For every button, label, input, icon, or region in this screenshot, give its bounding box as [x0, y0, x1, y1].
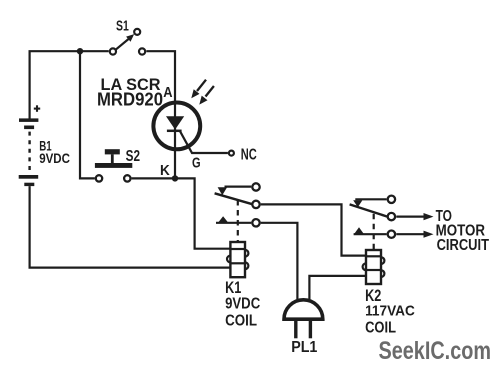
node K junction — [172, 175, 178, 181]
svg-text:9VDC: 9VDC — [225, 296, 260, 313]
S1 open-throw terminal — [134, 29, 140, 35]
wire S2 right terminal through node K down to relay coil K1 top feed — [132, 178, 231, 248]
wire K1 NO terminal down to plug PL1 left pin — [261, 223, 298, 301]
battery B1 — [19, 105, 70, 186]
svg-text:A: A — [163, 84, 172, 101]
K2 NC stationary finger — [355, 198, 386, 200]
S2 left terminal — [96, 175, 102, 181]
K2 coil body — [366, 250, 381, 284]
K2 coil loops — [381, 257, 384, 264]
battery top cell plates — [19, 118, 38, 122]
plug PL1 — [284, 300, 323, 356]
transistor U1 LASCR MRD920 — [153, 103, 200, 150]
K1 NO stationary finger — [216, 222, 251, 224]
switch S2 pushbutton — [95, 148, 140, 182]
wire K1 common terminal to K2 coil top feed — [261, 204, 366, 255]
K1 NC stationary finger — [225, 186, 252, 188]
K2 movable armature blade — [350, 204, 388, 216]
wire plug PL1 right pin up to K2 coil bottom feed — [309, 276, 366, 301]
svg-text:K1: K1 — [225, 278, 241, 297]
svg-text:NC: NC — [241, 147, 257, 164]
polarity mark + — [34, 108, 40, 110]
battery dashed middle link — [28, 132, 30, 171]
relay coil K2 — [363, 250, 385, 284]
S2 button cap — [105, 149, 120, 154]
svg-text:117VAC: 117VAC — [365, 303, 415, 320]
LASCR case circle — [153, 103, 200, 150]
svg-text:CIRCUIT: CIRCUIT — [437, 237, 490, 254]
relay K1 contact set — [215, 183, 260, 242]
light arrow 2 into LASCR — [199, 86, 214, 105]
light arrow 1 into LASCR — [191, 80, 206, 99]
K2 NO terminal — [388, 231, 395, 238]
svg-text:COIL: COIL — [365, 320, 396, 337]
K1 NC terminal — [252, 183, 259, 190]
K1 movable armature blade — [215, 193, 253, 204]
svg-text:G: G — [192, 155, 201, 172]
K1 common terminal — [252, 201, 259, 208]
PL1 plug body dome — [284, 300, 323, 319]
K1 coil body — [230, 242, 245, 277]
K2 dashed mechanical link to coil — [373, 214, 375, 250]
S2 right terminal — [124, 175, 130, 181]
wire arrow K2 common terminal to motor circuit — [396, 213, 433, 220]
LASCR cathode bar — [167, 130, 182, 133]
terminal NC open gate connection — [229, 151, 234, 156]
svg-text:MRD920: MRD920 — [97, 88, 163, 109]
svg-text:SeekIC.com: SeekIC.com — [379, 338, 492, 365]
K2 common terminal — [388, 213, 395, 220]
wire branch from top rail down to S2 left contact — [80, 51, 95, 178]
svg-text:COIL: COIL — [225, 312, 257, 329]
wire S1 right terminal to LASCR anode and on down to node K — [146, 51, 175, 178]
LASCR SCR triangle — [166, 116, 184, 129]
wire arrow K2 NO terminal to motor circuit — [396, 231, 433, 238]
node junction of top rail with S2 branch — [77, 48, 83, 54]
svg-text:K: K — [160, 162, 170, 179]
K1 coil loops — [245, 250, 248, 257]
S2 bridging contact bar — [95, 163, 132, 168]
switch S1 — [110, 19, 145, 55]
battery bottom cell plates — [19, 175, 39, 179]
wire battery negative bottom rail to K1 coil bottom feed — [30, 186, 231, 268]
svg-text:PL1: PL1 — [291, 339, 317, 356]
K1 NO terminal — [252, 219, 259, 226]
S1 blade with arrowhead — [115, 38, 130, 50]
wire battery positive lead up and top rail to S1 left terminal — [30, 51, 109, 119]
svg-text:9VDC: 9VDC — [39, 151, 70, 166]
relay K2 contact set — [350, 196, 395, 250]
K1 dashed mechanical link to coil — [237, 200, 239, 242]
PL1 prongs — [294, 321, 297, 338]
S2 plunger stem — [111, 154, 114, 163]
svg-text:S2: S2 — [126, 148, 140, 165]
wire gate lead from LASCR to NC terminal — [180, 131, 228, 153]
S1 left terminal — [110, 48, 116, 54]
K2 NO stationary finger — [354, 233, 387, 235]
relay coil K1 — [227, 242, 248, 277]
svg-text:S1: S1 — [116, 19, 129, 35]
S1 right terminal — [139, 48, 145, 54]
K2 NC terminal — [388, 196, 395, 203]
